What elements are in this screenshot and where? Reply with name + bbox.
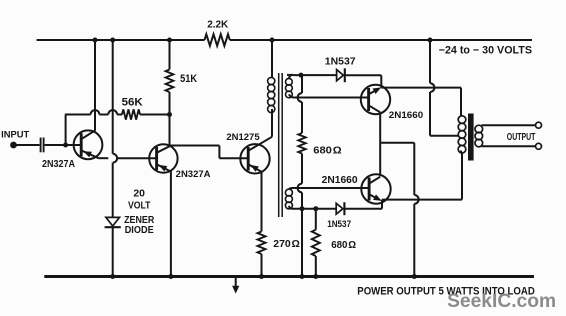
- svg-text:2N1660: 2N1660: [389, 110, 423, 121]
- svg-text:680 Ω: 680 Ω: [313, 146, 341, 157]
- svg-text:VOLT: VOLT: [128, 201, 151, 212]
- svg-text:1N537: 1N537: [327, 218, 351, 229]
- svg-text:270 Ω: 270 Ω: [273, 239, 300, 250]
- svg-text:2.2K: 2.2K: [207, 20, 228, 31]
- svg-text:2N1275: 2N1275: [226, 132, 260, 143]
- svg-text:OUTPUT: OUTPUT: [507, 132, 536, 143]
- svg-text:2N327A: 2N327A: [42, 159, 75, 170]
- svg-text:−24 to − 30 VOLTS: −24 to − 30 VOLTS: [439, 45, 532, 57]
- svg-text:2N327A: 2N327A: [176, 168, 211, 179]
- svg-text:2N1660: 2N1660: [322, 175, 358, 186]
- svg-text:DIODE: DIODE: [125, 225, 154, 236]
- svg-text:51K: 51K: [180, 73, 197, 85]
- svg-text:20: 20: [133, 189, 145, 200]
- svg-text:1N537: 1N537: [325, 57, 356, 68]
- svg-text:SeekIC.com: SeekIC.com: [447, 290, 556, 312]
- svg-text:680 Ω: 680 Ω: [331, 240, 356, 251]
- svg-text:56K: 56K: [122, 97, 143, 109]
- svg-text:INPUT: INPUT: [1, 129, 29, 140]
